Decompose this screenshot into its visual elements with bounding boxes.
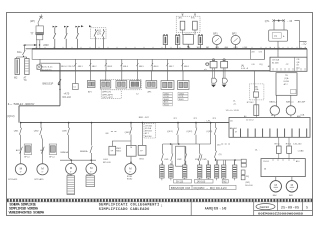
svg-text:101: 101	[197, 47, 200, 49]
svg-text:TC11: TC11	[179, 96, 183, 98]
svg-text:a b: a b	[204, 69, 207, 71]
svg-text:BT11A13: BT11A13	[8, 178, 18, 181]
svg-text:1/L →: 1/L →	[255, 150, 261, 152]
svg-text:CH 05A: CH 05A	[145, 124, 152, 127]
svg-text:104: 104	[225, 47, 228, 49]
svg-text:102: 102	[206, 47, 209, 49]
svg-text:APR-DN: APR-DN	[102, 91, 111, 94]
svg-text:AA/RQ 039 → 143: AA/RQ 039 → 143	[205, 206, 227, 210]
svg-text:4BL8: 4BL8	[184, 66, 190, 68]
svg-text:4BL6: 4BL6	[154, 66, 160, 68]
svg-text:2P1: 2P1	[174, 118, 177, 120]
svg-text:(QF1): (QF1)	[167, 131, 173, 133]
svg-text:TT: TT	[30, 31, 34, 35]
svg-text:4BL2: 4BL2	[92, 66, 98, 68]
svg-text:230V: 230V	[43, 44, 49, 47]
svg-text:SEMPLIFICATI COLLEGAMENTI: SEMPLIFICATI COLLEGAMENTI	[99, 204, 160, 208]
svg-text:140-160: 140-160	[245, 185, 253, 187]
svg-text:0 00 +8: 0 00 +8	[241, 68, 249, 70]
svg-text:QM5: QM5	[62, 131, 68, 133]
svg-text:BPL-0: BPL-0	[24, 156, 30, 158]
svg-text:RQ: RQ	[246, 176, 250, 178]
svg-text:KM12: KM12	[116, 151, 121, 153]
svg-text:NO-L10: NO-L10	[63, 96, 72, 99]
svg-text:01 05A: 01 05A	[145, 127, 152, 130]
svg-text:140-160: 140-160	[197, 181, 206, 183]
svg-text:3BL3C 3L2C: 3BL3C 3L2C	[41, 67, 53, 69]
svg-text:BH09: BH09	[179, 99, 184, 101]
svg-text:C0A: C0A	[300, 113, 305, 116]
svg-text:CR05: CR05	[164, 93, 169, 95]
svg-text:RQ11: RQ11	[164, 105, 169, 107]
svg-text:106: 106	[244, 47, 247, 49]
svg-text:103: 103	[216, 47, 219, 49]
svg-text:BPL-DB: BPL-DB	[103, 162, 111, 164]
svg-text:140-160: 140-160	[293, 144, 302, 146]
svg-text:2P3: 2P3	[213, 118, 216, 120]
svg-text:BP2: BP2	[232, 32, 237, 35]
svg-text:38L3-C 31L2-C: 38L3-C 31L2-C	[61, 66, 76, 68]
svg-text:QTL: QTL	[265, 20, 270, 23]
svg-text:RQ080 → RQ 90-120: RQ080 → RQ 90-120	[194, 187, 228, 190]
svg-text:BBM0A: BBM0A	[61, 151, 69, 154]
svg-text:G811: G811	[139, 159, 145, 161]
svg-text:4BL1: 4BL1	[78, 66, 84, 68]
svg-text:N: N	[275, 34, 277, 38]
svg-text:BT11A25: BT11A25	[35, 178, 45, 181]
svg-text:AB0: AB0	[297, 115, 301, 118]
svg-text:1N1L1: 1N1L1	[263, 161, 270, 163]
svg-text:RT11: RT11	[275, 144, 281, 146]
svg-text:4BL4: 4BL4	[123, 66, 129, 68]
svg-text:BBh/RQB 003: BBh/RQB 003	[171, 187, 191, 190]
svg-text:AA1-A1: AA1-A1	[230, 127, 238, 130]
svg-text:(QF3): (QF3)	[207, 131, 213, 133]
svg-text:(C)A: (C)A	[284, 77, 289, 80]
svg-text:LOAD: LOAD	[298, 150, 304, 153]
svg-text:12V: 12V	[97, 33, 102, 36]
svg-text:(M): (M)	[255, 86, 258, 88]
svg-text:ELDB: ELDB	[284, 81, 290, 83]
svg-text:BL 06B: BL 06B	[272, 62, 279, 64]
svg-text:10 11 12: 10 11 12	[246, 119, 255, 121]
svg-text:00EM999ZZ9999W00AB0: 00EM999ZZ9999W00AB0	[258, 213, 303, 216]
svg-text:KILL: KILL	[17, 51, 23, 54]
svg-text:CR 05A: CR 05A	[272, 59, 280, 62]
svg-text:AT21: AT21	[164, 101, 168, 104]
svg-text:BAS0-2: BAS0-2	[269, 100, 277, 103]
svg-text:APR+APR: APR+APR	[102, 93, 113, 96]
svg-text:AU2 A3: AU2 A3	[145, 135, 151, 138]
svg-text:4BL3: 4BL3	[107, 66, 113, 68]
svg-text:(QCU): (QCU)	[7, 115, 14, 118]
svg-text:4BL5: 4BL5	[139, 66, 145, 68]
svg-text:A0: A0	[244, 115, 246, 118]
svg-text:BPL-0: BPL-0	[49, 156, 55, 158]
svg-text:BM1 - BJ7: BM1 - BJ7	[139, 117, 150, 119]
svg-text:105: 105	[235, 47, 238, 49]
svg-text:B11A2: B11A2	[127, 177, 132, 180]
svg-text:AT 2: AT 2	[145, 132, 149, 135]
svg-text:(A): (A)	[241, 65, 244, 68]
svg-text:BM01S1P: BM01S1P	[43, 82, 54, 85]
svg-text:BH08: BH08	[164, 99, 169, 101]
svg-text:← L/B: ← L/B	[204, 121, 211, 123]
svg-text:ATL/AP: ATL/AP	[298, 100, 306, 103]
svg-text:4BL7: 4BL7	[169, 66, 175, 68]
svg-text:(QF2): (QF2)	[187, 131, 193, 133]
svg-text:(0PT+0PT): (0PT+0PT)	[102, 97, 113, 99]
svg-text:100: 100	[187, 47, 190, 49]
svg-text:Carrier: Carrier	[260, 205, 270, 209]
svg-text:→ 03: → 03	[286, 20, 292, 23]
svg-text:RQ: RQ	[260, 64, 264, 66]
svg-text:1B 1B: 1B 1B	[185, 34, 191, 36]
svg-text:TC: TC	[24, 79, 27, 82]
svg-text:25-09-05: 25-09-05	[281, 206, 300, 210]
svg-text:QM2: QM2	[34, 131, 40, 133]
svg-text:(M2): (M2)	[246, 182, 251, 184]
svg-text:1/0 +0+ 1/0 B: 1/0 +0+ 1/0 B	[226, 110, 240, 112]
svg-text:SIMPLIFICADO CABLEADO: SIMPLIFICADO CABLEADO	[99, 208, 150, 212]
svg-text:1~ 50Hz 400V: 1~ 50Hz 400V	[8, 102, 35, 106]
svg-text:BBM0A: BBM0A	[80, 150, 88, 153]
svg-text:BAS0-1: BAS0-1	[286, 100, 294, 103]
svg-text:VEREINFACHTES SCHEMA: VEREINFACHTES SCHEMA	[9, 212, 45, 216]
svg-text:QM11: QM11	[125, 132, 132, 134]
svg-text:(2P): (2P)	[30, 19, 35, 23]
svg-text:BP1: BP1	[213, 32, 218, 35]
svg-text:TC10: TC10	[164, 96, 169, 98]
svg-text:2P2: 2P2	[194, 118, 197, 120]
svg-text:RT10C: RT10C	[247, 102, 254, 104]
svg-text:90-120: 90-120	[176, 181, 184, 183]
svg-text:5: 5	[306, 206, 308, 210]
svg-text:→1Q: →1Q	[301, 42, 307, 45]
svg-text:CR06: CR06	[179, 93, 184, 95]
svg-text:(X): (X)	[219, 154, 222, 156]
svg-text:QM1: QM1	[14, 131, 20, 133]
